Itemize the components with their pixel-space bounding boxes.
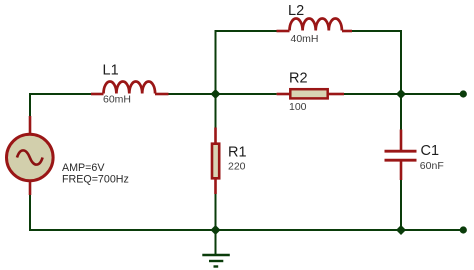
svg-text:C1: C1: [421, 143, 440, 159]
svg-text:R2: R2: [289, 71, 308, 87]
svg-text:FREQ=700Hz: FREQ=700Hz: [62, 174, 129, 186]
svg-text:100: 100: [289, 101, 307, 113]
svg-text:60nF: 60nF: [420, 160, 444, 172]
svg-text:60mH: 60mH: [103, 94, 131, 106]
svg-text:40mH: 40mH: [291, 33, 319, 45]
svg-text:R1: R1: [228, 144, 247, 160]
svg-text:L1: L1: [103, 63, 119, 79]
svg-text:220: 220: [228, 160, 246, 172]
svg-text:AMP=6V: AMP=6V: [62, 162, 105, 174]
svg-text:L2: L2: [288, 3, 304, 19]
